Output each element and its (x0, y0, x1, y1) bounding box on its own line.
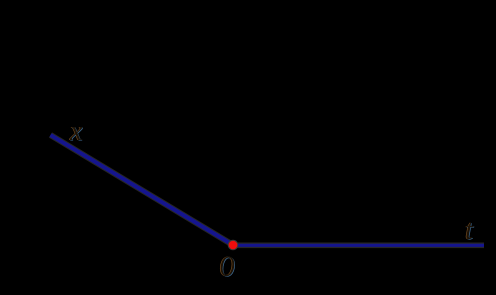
label O (219, 249, 236, 283)
wire: x-axis (diagonal blue line) (51, 135, 234, 245)
svg-text:x: x (69, 116, 83, 147)
node O (red dot at origin) (228, 240, 238, 250)
svg-text:t: t (465, 214, 474, 246)
wire: x-axis halo (diagonal) (51, 135, 234, 245)
label x (68, 116, 83, 147)
label t (464, 214, 474, 246)
svg-text:O: O (220, 249, 236, 282)
wire: t-axis halo (horizontal) (233, 243, 484, 249)
wire: t-axis (horizontal blue line) (233, 244, 484, 247)
